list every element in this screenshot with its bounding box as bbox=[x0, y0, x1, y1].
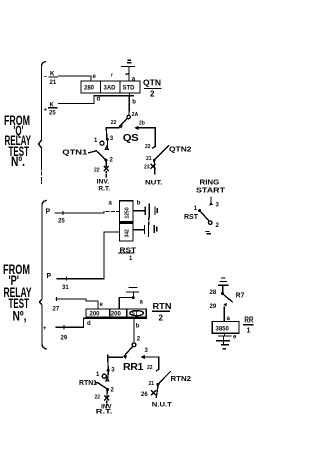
svg-text:QTN1: QTN1 bbox=[62, 149, 87, 156]
svg-text:21: 21 bbox=[50, 80, 57, 86]
svg-text:b: b bbox=[136, 324, 140, 330]
battery and earth below RR coil bbox=[217, 333, 231, 348]
label RR 1 bbox=[244, 316, 254, 335]
svg-text:R.T.: R.T. bbox=[96, 410, 113, 416]
label QTN winding 2 bbox=[143, 79, 161, 99]
svg-text:RING: RING bbox=[200, 179, 220, 186]
dashed link between batteries bbox=[148, 218, 150, 225]
svg-text:P: P bbox=[47, 273, 52, 280]
contact QTN2 bbox=[151, 146, 169, 174]
label RST 1 under coil bbox=[119, 248, 137, 263]
svg-text:200: 200 bbox=[111, 312, 122, 318]
contact RR1 armature bbox=[123, 343, 136, 359]
svg-text:23: 23 bbox=[144, 165, 150, 171]
contact QS armature bbox=[119, 115, 130, 128]
svg-text:RTN2: RTN2 bbox=[171, 376, 192, 383]
svg-text:d: d bbox=[97, 97, 101, 103]
svg-text:P: P bbox=[46, 209, 51, 216]
svg-text:2: 2 bbox=[159, 314, 164, 323]
svg-text:R.T.: R.T. bbox=[98, 187, 110, 193]
svg-text:RTN: RTN bbox=[153, 302, 172, 311]
svg-text:22: 22 bbox=[111, 120, 117, 126]
svg-text:STD: STD bbox=[123, 86, 136, 92]
wire coil QTN to contact QS bbox=[128, 93, 131, 115]
svg-text:NUT.: NUT. bbox=[145, 181, 163, 187]
svg-text:RTN1: RTN1 bbox=[79, 380, 97, 387]
svg-text:d: d bbox=[87, 321, 91, 327]
relay coil QTN (280 / 3AD / STD) bbox=[81, 81, 140, 93]
wire K/25 to coil terminal d bbox=[59, 96, 95, 104]
svg-text:29: 29 bbox=[210, 304, 217, 310]
svg-text:22: 22 bbox=[94, 168, 100, 174]
contact RTN1 bbox=[98, 355, 109, 406]
wire RTN coil a to ground bbox=[119, 298, 132, 310]
text FROM 'Q' RELAY TEST No. bbox=[4, 113, 31, 169]
terminal K/27 bbox=[56, 299, 98, 309]
svg-text:21: 21 bbox=[146, 156, 152, 162]
svg-text:342: 342 bbox=[124, 229, 130, 238]
svg-text:27: 27 bbox=[53, 307, 60, 313]
wire RR1 to RTN1 branch bbox=[108, 356, 123, 358]
svg-text:2b: 2b bbox=[139, 121, 145, 127]
wire RR1 to RTN2 branch bbox=[145, 357, 159, 369]
battery 1 at RST bbox=[133, 204, 157, 217]
bottom rail of relay QTN coil bbox=[94, 95, 134, 97]
break contact of RR1 bbox=[141, 355, 145, 359]
svg-text:Nº.: Nº. bbox=[11, 154, 25, 169]
svg-text:ST: ST bbox=[132, 311, 138, 317]
svg-text:N.U.T: N.U.T bbox=[152, 403, 172, 409]
wire P/25 to RST coil a bbox=[55, 212, 104, 214]
label RTN winding 2 bbox=[153, 302, 172, 323]
svg-text:28: 28 bbox=[210, 290, 217, 296]
svg-text:−: − bbox=[44, 75, 48, 81]
svg-text:3AD: 3AD bbox=[104, 86, 117, 92]
svg-text:29: 29 bbox=[61, 336, 68, 342]
svg-text:Nº,: Nº, bbox=[13, 309, 27, 324]
svg-text:280: 280 bbox=[84, 86, 95, 92]
svg-text:START: START bbox=[196, 188, 226, 195]
svg-text:QTN: QTN bbox=[143, 79, 161, 88]
svg-text:b: b bbox=[132, 100, 136, 106]
svg-text:+: + bbox=[44, 108, 48, 114]
bracket for P relay test group bbox=[40, 201, 47, 350]
svg-text:b: b bbox=[137, 201, 141, 207]
svg-text:22: 22 bbox=[95, 395, 101, 401]
svg-text:200: 200 bbox=[90, 312, 101, 318]
bracket for Q relay test group bbox=[39, 62, 46, 171]
wire RTN coil b to contact RR1 bbox=[133, 318, 135, 342]
svg-text:1250: 1250 bbox=[124, 207, 130, 218]
svg-text:26: 26 bbox=[141, 392, 148, 398]
svg-text:22: 22 bbox=[147, 365, 153, 371]
svg-text:22: 22 bbox=[145, 144, 151, 150]
wire P/31 to RST coil left bbox=[57, 232, 120, 279]
svg-text:r: r bbox=[111, 73, 113, 79]
contact RTN2 bbox=[152, 369, 171, 397]
wire QS to QTN2 branch bbox=[139, 128, 156, 147]
battery 2 at RST bbox=[133, 223, 157, 236]
node a junction bbox=[132, 296, 135, 299]
svg-text:25: 25 bbox=[58, 219, 65, 225]
relay coil RST winding 1 (vertical, 1250 / 342) bbox=[120, 201, 134, 241]
svg-text:25: 25 bbox=[49, 111, 56, 117]
contact RST1 (ring start) bbox=[198, 197, 213, 234]
svg-text:INV.: INV. bbox=[97, 179, 110, 185]
svg-text:RR: RR bbox=[244, 316, 253, 325]
svg-text:QTN2: QTN2 bbox=[169, 146, 192, 153]
svg-text:R7: R7 bbox=[236, 292, 245, 299]
svg-text:2: 2 bbox=[150, 90, 155, 99]
bottom rail of relay RTN coil bbox=[84, 317, 147, 319]
svg-text:31: 31 bbox=[62, 285, 69, 291]
svg-text:+: + bbox=[43, 326, 47, 332]
svg-text:QS: QS bbox=[123, 133, 139, 144]
wire QS to QTN1 branch bbox=[106, 127, 118, 129]
terminal K/25 bbox=[44, 103, 58, 117]
relay coil RTN (200 / 200 / STD) bbox=[86, 309, 146, 318]
svg-text:2A: 2A bbox=[132, 112, 139, 118]
svg-text:21: 21 bbox=[149, 381, 155, 387]
contact R7 bbox=[221, 292, 232, 322]
svg-text:3850: 3850 bbox=[216, 327, 230, 333]
ground above RTN bbox=[127, 288, 139, 298]
contact QTN1 bbox=[97, 128, 109, 177]
relay coil RR (3850) bbox=[212, 322, 239, 334]
svg-text:1: 1 bbox=[247, 328, 251, 335]
ground above R7 bbox=[219, 278, 228, 292]
svg-text:RST: RST bbox=[184, 214, 199, 221]
text FROM 'P' RELAY TEST No. bbox=[3, 262, 32, 324]
terminal K/21 bbox=[44, 72, 58, 87]
break contact 2b of QS bbox=[134, 126, 138, 130]
wire K/21 to coil terminal e bbox=[59, 76, 92, 81]
ground above QTN coil bbox=[122, 60, 135, 81]
svg-text:RR1: RR1 bbox=[123, 362, 144, 373]
